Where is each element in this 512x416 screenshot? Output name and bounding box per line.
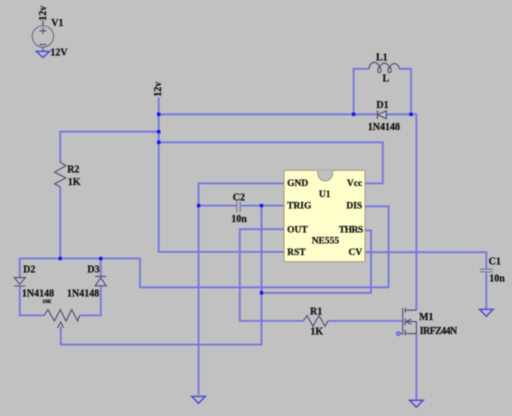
- svg-text:1K: 1K: [68, 177, 81, 188]
- svg-text:OUT: OUT: [287, 225, 308, 235]
- svg-text:DIS: DIS: [346, 202, 362, 212]
- svg-text:U1: U1: [319, 190, 331, 200]
- svg-text:10n: 10n: [489, 274, 505, 285]
- svg-text:NE555: NE555: [312, 237, 340, 247]
- svg-text:GND: GND: [287, 179, 308, 189]
- svg-text:TRIG: TRIG: [287, 202, 312, 212]
- svg-text:CV: CV: [348, 248, 362, 258]
- svg-text:RST: RST: [287, 248, 306, 258]
- svg-text:1N4148: 1N4148: [67, 288, 99, 299]
- svg-text:1N4148: 1N4148: [22, 288, 54, 299]
- svg-text:10K: 10K: [43, 300, 52, 305]
- svg-text:M1: M1: [419, 312, 433, 323]
- svg-text:10n: 10n: [231, 214, 247, 225]
- svg-text:L1: L1: [376, 52, 388, 63]
- svg-text:C2: C2: [233, 193, 245, 204]
- svg-text:D2: D2: [23, 265, 35, 276]
- svg-text:L: L: [383, 73, 390, 84]
- svg-text:12v: 12v: [38, 6, 49, 21]
- svg-text:V1: V1: [51, 18, 63, 29]
- svg-text:12V: 12V: [50, 48, 68, 59]
- svg-text:C1: C1: [489, 257, 501, 268]
- svg-text:R1: R1: [310, 306, 322, 317]
- svg-text:Vcc: Vcc: [347, 179, 362, 189]
- svg-text:1N4148: 1N4148: [368, 122, 400, 133]
- svg-text:D1: D1: [376, 100, 388, 111]
- svg-text:R2: R2: [67, 165, 79, 176]
- svg-text:1K: 1K: [310, 327, 323, 338]
- svg-text:12v: 12v: [153, 82, 164, 97]
- svg-text:D3: D3: [87, 265, 99, 276]
- svg-text:THRS: THRS: [339, 225, 363, 235]
- svg-text:IRFZ44N: IRFZ44N: [420, 326, 458, 337]
